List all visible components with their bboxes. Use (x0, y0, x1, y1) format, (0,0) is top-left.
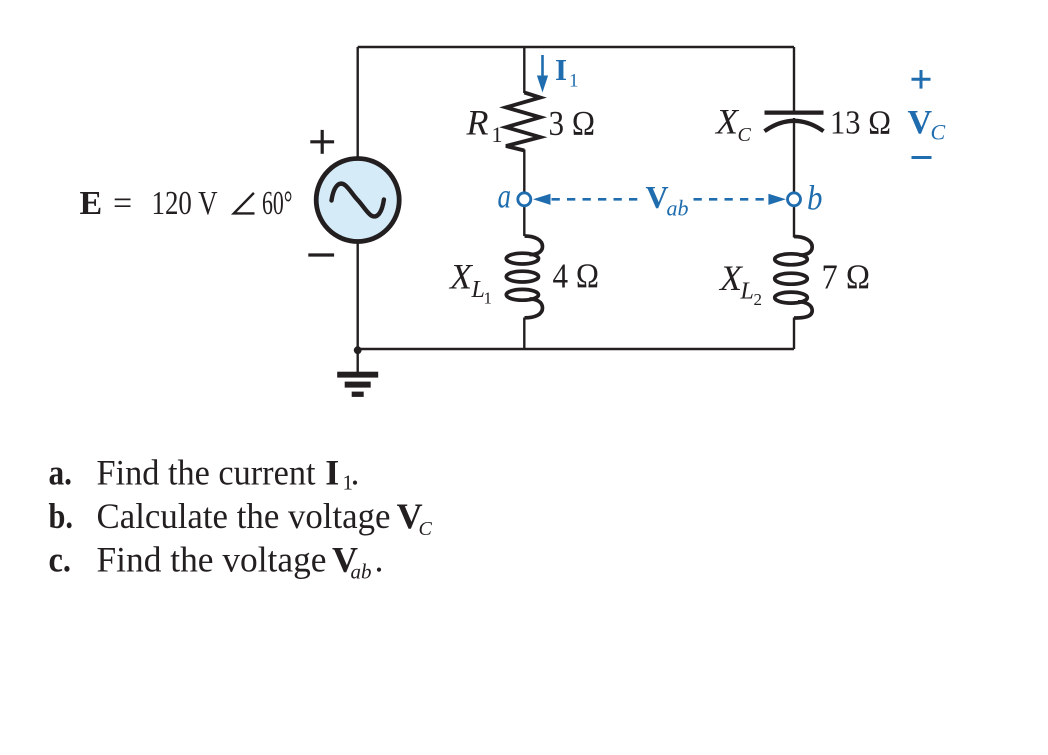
svg-text:R: R (466, 103, 489, 143)
svg-text:3 Ω: 3 Ω (549, 104, 596, 143)
svg-text:X: X (714, 102, 740, 142)
svg-text:C: C (738, 124, 752, 146)
svg-text:1: 1 (569, 71, 579, 92)
svg-text:=: = (113, 185, 132, 222)
svg-text:.: . (351, 453, 360, 493)
svg-text:4 Ω: 4 Ω (553, 257, 600, 296)
svg-text:E: E (80, 185, 103, 222)
svg-text:1: 1 (484, 289, 493, 308)
svg-text:C: C (931, 120, 946, 145)
svg-text:V: V (646, 179, 669, 215)
svg-text:b: b (807, 179, 823, 218)
svg-text:.: . (375, 540, 384, 580)
svg-text:I: I (325, 453, 339, 493)
svg-text:Calculate the voltage: Calculate the voltage (97, 496, 391, 536)
svg-text:60°: 60° (262, 185, 293, 222)
svg-text:ab: ab (351, 560, 372, 584)
svg-text:7 Ω: 7 Ω (822, 258, 871, 297)
svg-text:I: I (555, 52, 567, 87)
svg-text:13 Ω: 13 Ω (830, 105, 891, 142)
svg-text:Find the voltage: Find the voltage (97, 540, 327, 580)
svg-text:Find the current: Find the current (97, 453, 316, 493)
svg-text:120 V: 120 V (152, 185, 218, 222)
svg-text:c.: c. (49, 540, 72, 580)
svg-text:1: 1 (492, 122, 503, 147)
svg-text:b.: b. (49, 496, 74, 536)
svg-text:a.: a. (49, 453, 73, 493)
svg-text:C: C (419, 518, 433, 540)
svg-text:L: L (740, 279, 754, 305)
svg-text:X: X (448, 257, 474, 297)
svg-text:2: 2 (754, 290, 763, 309)
svg-text:a: a (498, 177, 512, 216)
svg-text:ab: ab (667, 196, 689, 221)
svg-text:V: V (908, 104, 933, 141)
